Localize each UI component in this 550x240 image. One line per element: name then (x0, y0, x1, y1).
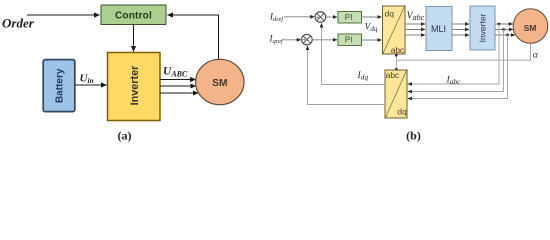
machine SM (b) (513, 9, 548, 44)
svg-text:-: - (319, 18, 321, 24)
block dq-abc transform (383, 6, 406, 55)
svg-text:(b): (b) (406, 129, 421, 143)
wire Vabc A to MLI (405, 23, 425, 25)
svg-text:-: - (306, 41, 308, 47)
wire Id feedback to sum1 (322, 23, 387, 84)
wire sum1 to PI1 (326, 16, 337, 18)
wire Control to Inverter (133, 25, 135, 52)
wire sum2 to PI2 (312, 39, 337, 41)
wire phase C Inverter to SM (160, 92, 198, 94)
block PI1 (338, 12, 362, 24)
svg-text:Vdq: Vdq (365, 23, 378, 34)
node tap B (502, 28, 505, 31)
svg-text:PI: PI (345, 12, 353, 22)
svg-text:MLI: MLI (431, 24, 446, 34)
svg-text:abc: abc (386, 70, 400, 80)
svg-text:Vabc: Vabc (407, 11, 425, 23)
svg-text:Iabc: Iabc (446, 76, 462, 87)
svg-text:Battery: Battery (55, 68, 66, 103)
node at abc-dq box top (395, 68, 398, 71)
wire Inverter to SM C (495, 34, 515, 36)
machine SM (a) (196, 59, 244, 104)
wire Battery to Inverter, U_in (75, 84, 107, 86)
block MLI (426, 7, 452, 51)
svg-text:(a): (a) (118, 129, 132, 143)
wire Vabc B to MLI (405, 29, 425, 31)
summing junction S2 (302, 34, 313, 47)
svg-text:SM: SM (212, 78, 227, 89)
wire Iabc phase A feedback (408, 24, 499, 84)
wire SM feedback to Control (168, 15, 219, 60)
block Control (101, 5, 166, 25)
svg-text:Order: Order (2, 16, 35, 31)
wire Vabc C to MLI (405, 34, 425, 36)
wire phase A Inverter to SM (160, 79, 196, 81)
wire alpha feedback (396, 43, 530, 60)
wire I_qref to sum2 (283, 39, 301, 41)
summing junction S1 (315, 12, 326, 25)
node tap C (506, 34, 509, 37)
block Inverter (b) (470, 6, 495, 50)
svg-text:Control: Control (115, 10, 152, 21)
node tap A (498, 23, 501, 26)
block abc-dq transform (385, 70, 407, 118)
wire Iabc phase C feedback (408, 35, 508, 99)
node at dq-abc box bottom (395, 54, 398, 57)
svg-text:Idq: Idq (357, 71, 369, 82)
wire alpha to both transform boxes (395, 55, 397, 70)
wire MLI to Inverter A (452, 23, 469, 25)
wire PI2 to dq-abc (362, 39, 382, 41)
wire Iabc phase B feedback (408, 30, 504, 92)
svg-text:Inverter: Inverter (129, 65, 141, 105)
wire I_dref to sum1 (284, 16, 314, 18)
wire PI1 to dq-abc (362, 16, 382, 18)
wire phase B Inverter to SM (160, 85, 196, 87)
wire Iq feedback to sum2 (308, 46, 387, 105)
svg-text:PI: PI (345, 35, 353, 45)
svg-text:Inverter: Inverter (478, 13, 488, 42)
svg-text:dq: dq (397, 106, 407, 116)
wire Order to Control (27, 14, 100, 16)
block Battery (43, 60, 75, 112)
svg-text:SM: SM (524, 23, 537, 33)
svg-text:abc: abc (391, 45, 405, 55)
block Inverter (a) (108, 53, 161, 121)
wire Inverter to SM B (495, 29, 513, 31)
wire MLI to Inverter B (452, 29, 469, 31)
svg-text:dq: dq (385, 8, 395, 18)
wire MLI to Inverter C (452, 34, 469, 36)
block PI2 (338, 34, 362, 46)
wire Inverter to SM A (495, 23, 513, 25)
